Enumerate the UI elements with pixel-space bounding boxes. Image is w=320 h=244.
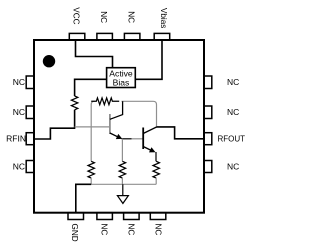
wire Q2 emitter to R3 xyxy=(155,152,157,161)
wire rail to GND pin xyxy=(76,184,91,212)
svg-text:Bias: Bias xyxy=(113,77,130,87)
svg-text:Vbias: Vbias xyxy=(159,8,168,28)
pin NC (right 4) xyxy=(204,161,212,173)
pin NC (bottom 4) xyxy=(150,213,166,220)
wire VCC to Active Bias xyxy=(76,40,113,68)
pin NC (right 2) xyxy=(204,106,212,119)
wire Q1 emitter to Q2 base xyxy=(122,138,132,140)
pin 1 indicator dot xyxy=(43,55,55,67)
svg-text:NC: NC xyxy=(153,224,162,236)
pin 1 VCC (top) xyxy=(69,33,85,40)
resistor R2 (bottom middle) xyxy=(119,161,125,178)
wire RFIN xyxy=(34,128,75,139)
svg-text:NC: NC xyxy=(126,11,135,23)
wire emitter node to R2 (gray) xyxy=(121,139,123,162)
Active Bias block xyxy=(107,68,136,88)
transistor Q1 emitter with arrow xyxy=(110,133,121,138)
wire Q1 base (gray) xyxy=(75,126,110,128)
svg-text:NC: NC xyxy=(13,162,25,172)
svg-text:NC: NC xyxy=(13,77,25,87)
pin NC (right 1) xyxy=(204,76,212,89)
pin 3 NC (top) xyxy=(124,33,139,40)
wire RFOUT xyxy=(157,127,205,139)
node/wire feedback left vertical (gray) xyxy=(91,101,94,161)
pin GND (bottom) xyxy=(68,213,84,220)
transistor Q1 collector xyxy=(110,101,123,119)
wire Active Bias to bias resistor xyxy=(75,79,107,96)
resistor R1 (bottom left) xyxy=(88,161,94,178)
svg-text:NC: NC xyxy=(100,224,109,236)
pin 2 NC (top) xyxy=(97,33,113,40)
svg-text:NC: NC xyxy=(227,162,239,172)
svg-text:VCC: VCC xyxy=(71,7,80,24)
svg-text:NC: NC xyxy=(227,77,239,87)
ground symbol xyxy=(117,184,128,203)
svg-text:GND: GND xyxy=(70,224,79,242)
svg-text:RFOUT: RFOUT xyxy=(218,135,246,144)
svg-text:NC: NC xyxy=(127,224,136,236)
transistor Q2 emitter with arrow xyxy=(143,147,153,152)
pin NC (left 2) xyxy=(26,106,34,119)
transistor Q2 collector xyxy=(143,127,156,134)
svg-text:NC: NC xyxy=(13,107,25,117)
pin NC (left 4) xyxy=(26,161,34,173)
svg-text:RFIN: RFIN xyxy=(6,134,26,144)
wire ground rail (gray) xyxy=(91,183,156,185)
wire feedback top to Q2 collector (gray) xyxy=(122,101,157,127)
pin RFOUT (right 3) xyxy=(204,133,212,145)
transistor Q2 bar xyxy=(142,128,144,150)
resistor R3 (bottom right) xyxy=(153,161,159,178)
wire Rbias to RFIN node xyxy=(74,110,76,128)
package outline U1 xyxy=(34,40,204,213)
resistor Rfb (feedback, horizontal) xyxy=(91,98,119,105)
pin NC (left 1) xyxy=(26,76,34,89)
svg-text:NC: NC xyxy=(227,107,239,117)
pin NC (bottom 2) xyxy=(97,213,113,220)
pin NC (bottom 3) xyxy=(124,213,140,220)
wire Vbias to Active Bias xyxy=(135,40,162,79)
transistor Q1 bar (gray) xyxy=(109,114,111,134)
resistor Rbias (vertical) xyxy=(71,96,77,110)
svg-text:NC: NC xyxy=(99,11,108,23)
pin 4 Vbias (top) xyxy=(154,33,170,40)
pin RFIN (left 3) xyxy=(26,133,34,145)
